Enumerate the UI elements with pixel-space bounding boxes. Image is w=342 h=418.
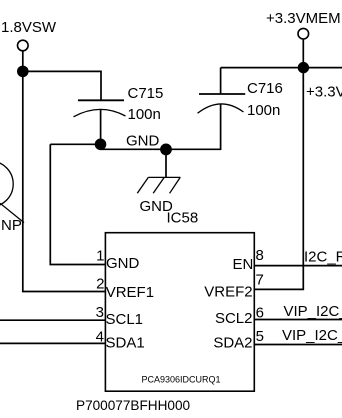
svg-text:GND: GND [106,255,140,272]
svg-text:NP: NP [1,217,22,234]
svg-text:+3.3VMEM: +3.3VMEM [266,10,341,27]
wire rail corner to C716 top [220,68,222,94]
svg-text:C716: C716 [247,80,283,97]
svg-text:7: 7 [256,272,264,289]
svg-text:C715: C715 [128,85,164,102]
junction dot +3.3VMEM [298,62,309,73]
wire diagonal to rail (DNP slash) [0,203,24,222]
junction dot 1.8VSW [17,66,29,78]
wire down to ground symbol [165,149,167,177]
svg-text:SDA1: SDA1 [106,335,145,352]
wire from 1.8VSW junction to C715 top [23,71,101,100]
wire GND segment right to C716 bottom [101,104,221,149]
svg-text:VREF2: VREF2 [204,283,252,300]
svg-text:1: 1 [96,248,104,265]
svg-text:VREF1: VREF1 [106,284,154,301]
wire SCL2 pin 6 [254,319,342,321]
svg-text:P700077BFHH000: P700077BFHH000 [76,398,191,413]
svg-text:8: 8 [256,247,264,264]
svg-text:+3.3VS: +3.3VS [306,84,342,101]
wire SDA2 pin 5 [254,344,342,346]
svg-text:1.8VSW: 1.8VSW [1,19,57,36]
wire EN pin 8 [254,265,342,267]
svg-text:PCA9306IDCURQ1: PCA9306IDCURQ1 [141,375,220,385]
op-amp U1 IC box PCA9306 [105,233,254,392]
svg-text:2: 2 [96,276,104,293]
wire GND segment left [50,143,100,145]
svg-text:SCL2: SCL2 [215,310,253,327]
wire from +3.3VMEM circle down [302,39,304,67]
capacitor C716 [198,94,246,113]
svg-text:IC58: IC58 [167,209,199,226]
power port circle 1.8VSW [18,40,29,51]
wire +3.3V down to VREF2 pin 7 [254,68,303,290]
wire 1.8VSW vertical rail down to VREF1 [23,51,106,291]
svg-text:GND: GND [126,133,160,150]
svg-text:SDA2: SDA2 [213,334,252,351]
wire GND rail down to pin 1 [50,144,105,264]
svg-text:VIP_I2C_S: VIP_I2C_S [282,327,342,344]
svg-text:5: 5 [256,328,264,345]
svg-text:EN: EN [232,256,253,273]
capacitor C715 [74,100,126,117]
wire SCL1 pin 3 [0,319,105,321]
wire +3.3VMEM rail horizontal [221,67,342,69]
transistor Q (partial, left edge) [0,161,13,207]
wire C715 bottom to GND node [100,110,102,145]
svg-text:100n: 100n [247,102,280,119]
junction dot GND node A [95,139,107,151]
wire SDA1 pin 4 [0,342,105,344]
svg-text:100n: 100n [128,106,161,123]
ground symbol [137,177,180,193]
svg-text:VIP_I2C_S: VIP_I2C_S [284,303,342,320]
svg-text:SCL1: SCL1 [106,311,144,328]
svg-text:3: 3 [96,304,104,321]
junction dot GND node B [160,144,172,156]
svg-text:I2C_RT: I2C_RT [304,249,342,266]
power port circle +3.3VMEM [298,28,309,39]
